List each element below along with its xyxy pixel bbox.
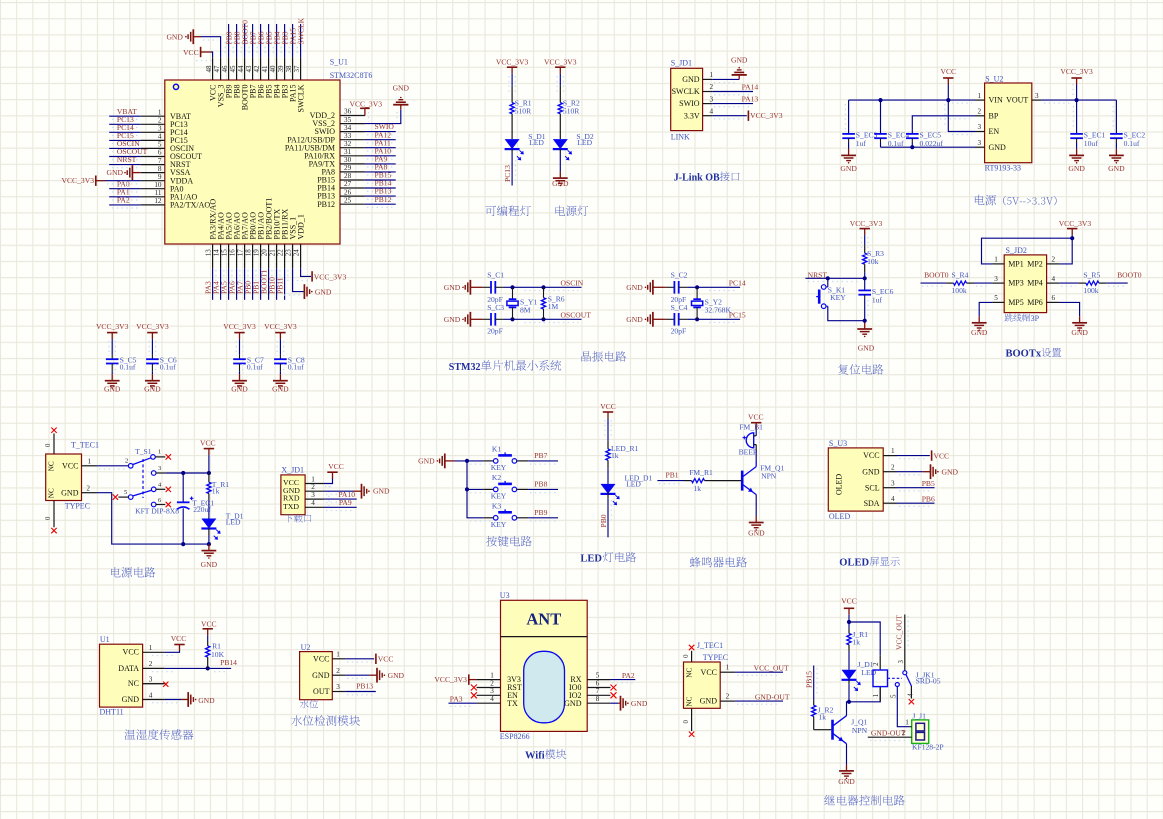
- capacitor S_C2 20pF: [666, 271, 688, 304]
- wire: [864, 321, 866, 323]
- svg-text:VCC_OUT: VCC_OUT: [754, 664, 789, 673]
- svg-text:16: 16: [229, 249, 237, 257]
- net label VCC_OUT: [895, 615, 909, 650]
- capacitor S_C4 20pF: [666, 303, 688, 336]
- junction: [465, 459, 469, 463]
- svg-text:33: 33: [344, 132, 352, 140]
- svg-text:0: 0: [45, 443, 52, 447]
- svg-text:LED: LED: [861, 668, 876, 677]
- svg-text:ESP8266: ESP8266: [500, 732, 530, 741]
- svg-text:29: 29: [344, 164, 352, 172]
- wire: [233, 24, 236, 57]
- junction: [695, 317, 699, 321]
- svg-text:20pF: 20pF: [671, 327, 687, 336]
- net label PB6: [256, 31, 265, 44]
- buzzer FM_B1 BEEP: [739, 423, 764, 457]
- ground: [181, 692, 215, 707]
- capacitor S_EC2 0.1uf: [1110, 100, 1145, 149]
- relay J_JK1 SRD-05: [873, 655, 941, 702]
- wire: [365, 132, 396, 135]
- net label PC14: [117, 123, 134, 132]
- svg-text:GND: GND: [388, 671, 405, 680]
- svg-text:5: 5: [158, 141, 162, 149]
- net label PB11: [275, 277, 284, 294]
- svg-text:3: 3: [149, 676, 153, 684]
- resistor S_R3 10k: [863, 245, 885, 272]
- capacitor S_C6 0.1uf: [146, 355, 177, 374]
- net label PB0: [599, 514, 608, 527]
- svg-text:37: 37: [293, 65, 301, 73]
- wire: [755, 495, 757, 516]
- wire: [109, 140, 141, 143]
- net label PA10: [338, 490, 355, 499]
- title OLED屏显示: [839, 557, 899, 568]
- svg-text:GND: GND: [393, 84, 410, 93]
- no-connect X: [689, 645, 694, 650]
- wire: [324, 491, 354, 494]
- svg-text:LED: LED: [626, 479, 641, 488]
- wire: [105, 181, 141, 184]
- power VCC_3V3: [496, 57, 529, 73]
- svg-text:0.1uf: 0.1uf: [160, 362, 176, 371]
- wire: [365, 109, 401, 123]
- wire: [365, 148, 396, 151]
- svg-text:3: 3: [978, 123, 982, 131]
- wire: [712, 92, 753, 95]
- no-connect X: [143, 682, 169, 687]
- ground: [444, 280, 483, 295]
- wire: [236, 339, 242, 356]
- wire: [911, 143, 913, 148]
- wire: [149, 339, 155, 356]
- svg-text:GND: GND: [682, 75, 700, 84]
- svg-text:PC13: PC13: [503, 165, 512, 182]
- wire: [293, 268, 304, 291]
- ground: [971, 316, 988, 337]
- junction: [863, 319, 867, 323]
- svg-text:X_JD1: X_JD1: [281, 466, 304, 475]
- wire: [1059, 235, 1072, 264]
- svg-text:1: 1: [158, 449, 161, 456]
- svg-text:VCC_3V3: VCC_3V3: [264, 322, 297, 331]
- svg-text:1: 1: [891, 447, 895, 455]
- svg-text:PA14: PA14: [742, 82, 759, 91]
- svg-text:2: 2: [710, 83, 714, 91]
- ground: [923, 464, 959, 479]
- svg-text:PB6: PB6: [922, 495, 935, 504]
- svg-text:31: 31: [344, 148, 352, 156]
- svg-text:1uf: 1uf: [856, 139, 867, 148]
- wire: [109, 148, 141, 151]
- svg-text:3: 3: [490, 687, 494, 695]
- wire: [847, 702, 850, 716]
- net label PC14: [729, 278, 746, 287]
- svg-text:42: 42: [253, 65, 261, 73]
- net label PB7: [248, 31, 257, 44]
- resistor S_R5 100k: [1078, 270, 1106, 295]
- svg-text:SWCLK: SWCLK: [296, 84, 305, 112]
- svg-text:0.1uf: 0.1uf: [888, 139, 904, 148]
- net label BOOT0: [924, 270, 949, 279]
- svg-text:3: 3: [158, 125, 162, 133]
- svg-text:44: 44: [237, 65, 245, 73]
- wire: [109, 116, 141, 119]
- wire: [365, 188, 396, 191]
- wire: [846, 744, 848, 765]
- junction: [510, 317, 514, 321]
- wire: [97, 493, 209, 544]
- crystal S_Y2 32.768K: [692, 287, 732, 319]
- svg-text:3: 3: [336, 683, 340, 691]
- svg-text:LED: LED: [580, 553, 602, 564]
- svg-text:4: 4: [891, 495, 895, 503]
- svg-text:MP1: MP1: [1008, 260, 1024, 269]
- wire: [982, 238, 1073, 264]
- resistor S_R6 1M: [541, 287, 564, 319]
- net label PA2: [622, 671, 635, 680]
- svg-text:KEY: KEY: [491, 463, 507, 472]
- svg-text:100k: 100k: [952, 286, 967, 295]
- svg-text:GND: GND: [198, 696, 215, 705]
- net label PB9: [224, 31, 233, 44]
- power VCC_3V3: [544, 57, 577, 73]
- svg-text:1: 1: [710, 71, 714, 79]
- net label OSCOUT: [561, 310, 592, 319]
- svg-text:VOUT: VOUT: [1006, 96, 1028, 105]
- wire: [449, 703, 477, 706]
- wire: [712, 116, 747, 119]
- svg-text:GND: GND: [122, 695, 140, 704]
- wire: [455, 461, 484, 518]
- net label PB14: [220, 658, 237, 667]
- svg-text:OLED: OLED: [829, 512, 851, 521]
- connector S_JD1 LINK: [671, 59, 714, 142]
- wire: [974, 283, 992, 286]
- wire: [277, 268, 280, 300]
- transistor J_Q1 NPN: [833, 716, 868, 744]
- title 电源电路: [111, 567, 155, 578]
- IC U1 right pin names and numbers: [285, 108, 365, 209]
- title LED灯电路: [580, 552, 636, 565]
- svg-text:20pF: 20pF: [487, 327, 503, 336]
- svg-text:SWCLK: SWCLK: [672, 87, 700, 96]
- svg-text:GND: GND: [201, 560, 218, 569]
- wire: [814, 666, 817, 701]
- svg-text:BOOT0: BOOT0: [1117, 270, 1142, 279]
- net label PB1: [251, 281, 260, 294]
- svg-text:45: 45: [229, 65, 237, 73]
- junction: [847, 620, 851, 624]
- net label OSCIN: [561, 278, 584, 287]
- svg-text:VCC_3V3: VCC_3V3: [496, 57, 529, 66]
- svg-text:TXD: TXD: [283, 502, 299, 511]
- svg-text:J_J1: J_J1: [912, 711, 926, 720]
- net label PA3: [203, 281, 212, 294]
- net label PB3: [280, 31, 289, 44]
- power VCC_3V3: [1060, 67, 1093, 100]
- svg-text:VCC: VCC: [841, 597, 857, 606]
- svg-text:GND: GND: [272, 384, 289, 393]
- net label OSCOUT: [117, 147, 148, 156]
- svg-text:1k: 1k: [611, 451, 619, 460]
- svg-text:1uf: 1uf: [872, 296, 883, 305]
- wire: [912, 116, 975, 130]
- svg-text:PB15: PB15: [805, 671, 814, 688]
- wire: [109, 132, 141, 135]
- svg-text:VCC_OUT: VCC_OUT: [895, 615, 904, 650]
- wire: [509, 74, 515, 92]
- svg-text:0: 0: [45, 516, 52, 520]
- svg-text:0.022uf: 0.022uf: [920, 139, 944, 148]
- no-connect X: [471, 685, 477, 691]
- title 按键电路: [486, 536, 532, 547]
- wire: [324, 477, 333, 506]
- svg-text:34: 34: [344, 124, 352, 132]
- svg-text:NPN: NPN: [852, 726, 868, 735]
- ground: [731, 55, 748, 79]
- svg-text:VCC_3V3: VCC_3V3: [750, 111, 783, 120]
- title 复位电路: [838, 364, 883, 375]
- svg-text:VCC_3V3: VCC_3V3: [136, 322, 169, 331]
- ground: [618, 696, 648, 711]
- svg-text:OSCIN: OSCIN: [561, 278, 584, 287]
- svg-text:BOOT0: BOOT0: [924, 270, 949, 279]
- net label PB1: [666, 471, 679, 480]
- net label PA5: [219, 281, 228, 294]
- svg-text:0.1uf: 0.1uf: [247, 362, 263, 371]
- svg-text:30: 30: [344, 156, 352, 164]
- net label OSCIN: [117, 139, 140, 148]
- ground: [104, 374, 121, 393]
- svg-text:PB8: PB8: [534, 480, 547, 489]
- svg-text:MP6: MP6: [1027, 298, 1043, 307]
- power VCC_3V3: [748, 111, 782, 121]
- wire: [687, 319, 740, 322]
- wire: [849, 687, 880, 702]
- svg-text:4: 4: [149, 691, 153, 699]
- wire: [324, 499, 357, 502]
- svg-text:23: 23: [285, 249, 293, 257]
- label 下载口: [285, 514, 312, 523]
- resistor T_R1 1k: [207, 473, 230, 500]
- svg-text:S_R5: S_R5: [1083, 270, 1100, 279]
- svg-text:1: 1: [978, 92, 982, 100]
- svg-text:VCC: VCC: [934, 451, 950, 460]
- svg-text:40: 40: [269, 65, 277, 73]
- power VCC: [932, 450, 950, 460]
- wire: [365, 180, 396, 183]
- svg-text:GND: GND: [1068, 164, 1085, 173]
- wire: [512, 154, 515, 186]
- svg-text:3P: 3P: [1031, 314, 1040, 323]
- wire: [849, 622, 880, 655]
- svg-text:NC: NC: [48, 461, 56, 471]
- svg-text:GND: GND: [564, 699, 582, 708]
- svg-text:LED: LED: [529, 138, 544, 147]
- svg-text:EN: EN: [989, 127, 1000, 136]
- svg-text:BP: BP: [989, 111, 999, 120]
- svg-text:PB12: PB12: [375, 195, 392, 204]
- junction: [826, 276, 830, 280]
- wire: [904, 615, 906, 671]
- wire: [467, 488, 483, 490]
- svg-text:2: 2: [978, 108, 982, 116]
- svg-text:KFT DIP-8X8: KFT DIP-8X8: [135, 506, 179, 515]
- wire: [897, 456, 930, 459]
- wire: [201, 37, 221, 58]
- svg-text:3: 3: [978, 139, 982, 147]
- svg-text:S_EC1: S_EC1: [1084, 130, 1106, 139]
- net label GND-OUT: [755, 692, 790, 701]
- no-connect X: [689, 732, 694, 737]
- svg-text:VCC: VCC: [201, 619, 217, 628]
- button K2 KEY: [483, 473, 528, 501]
- LED S_D1: [505, 132, 546, 161]
- svg-text:PB7: PB7: [534, 451, 547, 460]
- net label PB5: [264, 31, 273, 44]
- svg-text:9: 9: [158, 173, 162, 181]
- svg-text:7: 7: [158, 157, 162, 165]
- svg-text:1: 1: [490, 672, 494, 680]
- power VCC_3V3: [850, 219, 883, 235]
- junction: [541, 285, 545, 289]
- svg-text:RT9193-33: RT9193-33: [985, 164, 1021, 173]
- svg-text:2: 2: [891, 463, 895, 471]
- svg-text:0.1uf: 0.1uf: [1124, 139, 1140, 148]
- wire: [345, 675, 369, 678]
- svg-text:DATA: DATA: [118, 664, 139, 673]
- LED T_D1: [201, 512, 243, 540]
- svg-text:GND-OUT: GND-OUT: [871, 729, 906, 738]
- svg-text:OLED: OLED: [835, 474, 844, 496]
- svg-text:PB9: PB9: [534, 508, 547, 517]
- svg-text:22: 22: [277, 249, 285, 257]
- net label PA14: [742, 82, 759, 91]
- no-connect X: [909, 686, 914, 704]
- wire: [365, 196, 396, 199]
- svg-text:38: 38: [285, 65, 293, 73]
- title 电源灯: [556, 206, 589, 217]
- ground (VSS_3 pin 47): [166, 29, 201, 44]
- wire: [712, 104, 753, 107]
- title STM32单片机最小系统: [449, 360, 562, 373]
- net label PB6: [922, 495, 935, 504]
- svg-text:GND: GND: [444, 283, 461, 292]
- svg-text:1: 1: [336, 651, 340, 659]
- svg-text:GND-OUT: GND-OUT: [755, 692, 790, 701]
- wire: [504, 287, 582, 290]
- svg-text:41: 41: [261, 65, 269, 73]
- net label PA3: [450, 694, 463, 703]
- svg-text:S_C1: S_C1: [487, 271, 504, 280]
- wire: [1106, 283, 1127, 286]
- junction: [1075, 98, 1079, 102]
- power VCC: [376, 654, 394, 664]
- svg-text:510R: 510R: [563, 106, 580, 115]
- svg-text:2: 2: [336, 667, 340, 675]
- junction: [207, 471, 211, 475]
- svg-text:2: 2: [149, 660, 153, 668]
- wire: [196, 52, 213, 61]
- wire: [152, 700, 181, 703]
- resistor S_R4 100k: [946, 270, 974, 295]
- svg-text:46: 46: [221, 65, 229, 73]
- wire: [848, 684, 850, 702]
- svg-text:VCC: VCC: [940, 67, 956, 76]
- svg-text:GND: GND: [373, 487, 390, 496]
- wire: [269, 268, 272, 300]
- net label PA8: [375, 163, 388, 172]
- svg-text:KF128-2P: KF128-2P: [912, 743, 944, 752]
- wire: [470, 518, 558, 521]
- wire: [257, 24, 260, 57]
- net label PB5: [922, 479, 935, 488]
- svg-text:NRST: NRST: [117, 155, 137, 164]
- svg-text:4: 4: [490, 695, 494, 703]
- no-connect X: [51, 428, 56, 433]
- wire: [557, 74, 563, 92]
- svg-text:U1: U1: [100, 635, 110, 644]
- svg-text:18: 18: [245, 249, 253, 257]
- wire: [109, 124, 141, 127]
- junction: [510, 285, 514, 289]
- junction: [541, 317, 545, 321]
- wire: [880, 143, 882, 148]
- svg-text:GND: GND: [144, 384, 161, 393]
- svg-text:LED: LED: [577, 138, 592, 147]
- svg-text:PB12: PB12: [317, 200, 335, 209]
- wire: [827, 278, 829, 287]
- svg-text:6: 6: [1052, 294, 1056, 302]
- wire: [849, 100, 975, 103]
- power VCC_3V3 (VDD_1 pin 24): [292, 271, 346, 281]
- svg-text:5: 5: [596, 672, 600, 680]
- wire: [279, 371, 281, 374]
- wire: [897, 503, 935, 506]
- title 蜂鸣器电路: [690, 557, 747, 568]
- net label PC13: [503, 165, 512, 182]
- junction: [946, 98, 950, 102]
- svg-text:19: 19: [253, 249, 261, 257]
- svg-text:47: 47: [213, 65, 221, 73]
- ground: [552, 172, 569, 188]
- svg-text:FM_R1: FM_R1: [689, 468, 713, 477]
- wire: [345, 659, 374, 662]
- net label GND-OUT: [870, 729, 906, 741]
- svg-text:14: 14: [213, 249, 221, 257]
- svg-text:10K: 10K: [211, 650, 225, 659]
- ground: [857, 323, 874, 353]
- IC U3 ESP8266 body: [500, 591, 587, 741]
- no-connect X: [166, 502, 171, 507]
- svg-text:NC: NC: [128, 679, 139, 688]
- power VCC: [200, 438, 216, 455]
- wire: [897, 472, 923, 475]
- wire: [979, 302, 992, 316]
- wire: [610, 702, 618, 704]
- svg-text:VCC: VCC: [328, 462, 344, 471]
- power VCC_3V3: [223, 322, 256, 339]
- svg-text:VCC_3V3: VCC_3V3: [544, 57, 577, 66]
- capacitor S_EC4 0.1uf: [874, 100, 909, 148]
- svg-text:FM_B1: FM_B1: [739, 423, 763, 432]
- svg-text:S_EC2: S_EC2: [1124, 130, 1146, 139]
- svg-text:S_JD1: S_JD1: [671, 59, 692, 68]
- svg-text:3.3V: 3.3V: [684, 111, 700, 120]
- wire: [687, 287, 740, 290]
- wire: [712, 79, 739, 82]
- svg-text:GND: GND: [942, 467, 959, 476]
